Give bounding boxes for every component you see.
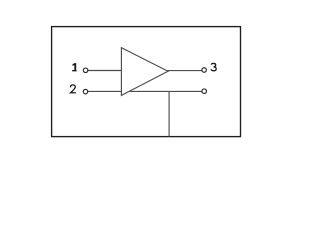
pin 2 terminal	[83, 89, 88, 94]
wire ground stub to case bottom	[168, 91, 170, 136]
op-amp U1 (buffer triangle)	[121, 48, 168, 96]
package outline box	[52, 27, 241, 137]
pin label 3	[211, 63, 216, 70]
pin 3 terminal	[202, 68, 207, 73]
pin label 1	[72, 63, 76, 71]
case terminal	[202, 89, 207, 94]
pin 1 terminal	[83, 68, 88, 73]
wire pin2 / common rail	[88, 90, 202, 92]
wire output to pin3	[168, 70, 202, 72]
pin label 2	[70, 85, 75, 93]
wire pin1 to amplifier input	[88, 70, 122, 72]
